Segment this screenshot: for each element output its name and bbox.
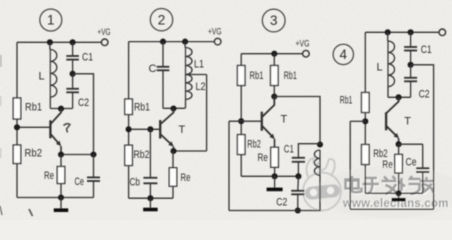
svg-text:1: 1 bbox=[47, 13, 55, 28]
svg-text:C1: C1 bbox=[421, 44, 432, 56]
svg-text:Ce: Ce bbox=[406, 157, 417, 169]
svg-text:+VG: +VG bbox=[296, 38, 310, 48]
svg-text:C2: C2 bbox=[78, 97, 89, 109]
svg-text:Ce: Ce bbox=[75, 176, 85, 188]
svg-text:4: 4 bbox=[340, 47, 348, 62]
svg-text:C: C bbox=[149, 63, 157, 75]
svg-text:L: L bbox=[39, 71, 45, 83]
svg-text:Re: Re bbox=[44, 170, 54, 182]
svg-text:L1: L1 bbox=[194, 59, 204, 71]
svg-text:Rb1: Rb1 bbox=[284, 70, 297, 82]
svg-text:Re: Re bbox=[382, 159, 393, 171]
svg-text:3: 3 bbox=[270, 13, 278, 28]
svg-text:Rb1: Rb1 bbox=[250, 70, 264, 82]
svg-text:Rb2: Rb2 bbox=[25, 148, 43, 160]
svg-text:Rb2: Rb2 bbox=[247, 139, 261, 151]
svg-text:2: 2 bbox=[158, 12, 166, 27]
svg-text:L: L bbox=[377, 62, 383, 74]
svg-text:Rb1: Rb1 bbox=[134, 102, 150, 114]
svg-text:Cb: Cb bbox=[130, 177, 141, 189]
svg-text:C1: C1 bbox=[284, 144, 294, 156]
svg-text:T: T bbox=[179, 124, 186, 136]
svg-text:Re: Re bbox=[181, 172, 191, 184]
svg-text:+VG: +VG bbox=[98, 27, 111, 37]
svg-text:C2: C2 bbox=[419, 89, 430, 101]
svg-text:C2: C2 bbox=[276, 197, 287, 209]
svg-text:Re: Re bbox=[258, 152, 269, 164]
svg-text:L2: L2 bbox=[196, 81, 206, 93]
svg-text:T: T bbox=[281, 114, 288, 126]
svg-text:Rb1: Rb1 bbox=[340, 95, 353, 107]
svg-text:Rb2: Rb2 bbox=[134, 149, 150, 161]
svg-text:+VG: +VG bbox=[208, 27, 222, 37]
svg-text:Rb1: Rb1 bbox=[25, 102, 42, 114]
svg-text:T: T bbox=[404, 116, 411, 128]
svg-text:C1: C1 bbox=[82, 52, 93, 64]
